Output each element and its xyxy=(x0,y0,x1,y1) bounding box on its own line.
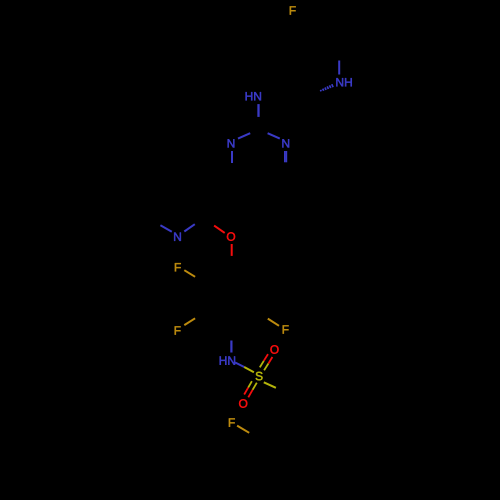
wire F-C stub (benzenesulfonyl ortho) xyxy=(237,426,249,433)
sulfur S1 xyxy=(256,372,263,380)
wire F-C stub (aryl lower-left) xyxy=(184,318,195,325)
wire N3-C2 stub xyxy=(268,133,280,138)
wire O-C4aryl stub down xyxy=(231,244,233,256)
fluorine F (aryl upper-left) xyxy=(175,263,181,271)
fluorine F (aryl lower-left) xyxy=(175,326,181,334)
fluorine F (benzenesulfonyl ortho) xyxy=(229,418,235,426)
wire C1aryl-N stub above sulfonamide HN xyxy=(230,341,232,353)
wire N1-C6 stub xyxy=(231,151,233,163)
wire S=O lower line B xyxy=(253,383,257,390)
wire N-S bond blue half xyxy=(235,363,244,368)
wire S=O lower line A xyxy=(248,381,252,387)
node O ether xyxy=(227,232,235,240)
node N pyridine xyxy=(174,233,181,241)
node O sulfonyl lower xyxy=(239,399,247,407)
wire S=O upper line B xyxy=(264,364,268,371)
wire S=O upper line A xyxy=(260,361,264,368)
node O sulfonyl upper xyxy=(270,345,278,353)
node N3 pyrimidine xyxy=(282,139,289,147)
amine HN (sulfonamide) xyxy=(220,356,235,364)
wire N3=C4 double stub xyxy=(284,151,286,162)
fluorine F (piperidine top) xyxy=(290,6,296,14)
wire Npyridine-C2 stub up-right xyxy=(184,224,195,231)
wire hashed wedge C3-NH (stereo) xyxy=(321,84,334,91)
wire N-C bond stub above NH xyxy=(338,61,340,75)
wire F-C stub (aryl upper-left) xyxy=(184,270,195,277)
wire N-S bond sulfur half xyxy=(244,367,254,372)
wire S-C benzene stub xyxy=(264,382,276,388)
wire F-C stub (aryl right) xyxy=(268,319,279,326)
fluorine F (aryl right) xyxy=(283,325,289,333)
node N1 pyrimidine xyxy=(228,139,235,147)
amine NH (piperidine) xyxy=(336,78,351,86)
amine HN (pyrimidin-2-yl link) xyxy=(246,92,261,100)
wire C2-O ether stub up-left xyxy=(214,226,225,233)
wire Npyridine-C6 stub up-left xyxy=(160,225,171,232)
wire HN-C2 bond stub xyxy=(257,104,259,117)
wire N1-C2 stub xyxy=(238,133,250,138)
